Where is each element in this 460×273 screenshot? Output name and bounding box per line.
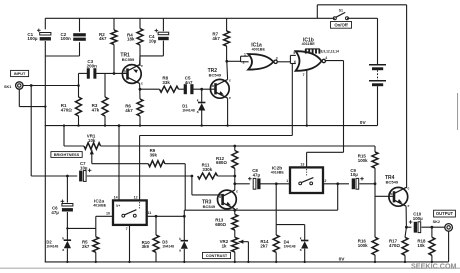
svg-text:BC549: BC549: [209, 73, 222, 78]
svg-text:10µ: 10µ: [350, 172, 358, 177]
svg-text:39k: 39k: [150, 153, 158, 158]
svg-text:c: c: [229, 79, 231, 83]
svg-text:a: a: [197, 110, 199, 114]
svg-text:1: 1: [286, 179, 288, 183]
svg-text:OUTPUT: OUTPUT: [436, 211, 454, 216]
svg-text:2k7: 2k7: [82, 244, 90, 249]
svg-text:SEEKIC.COM: SEEKIC.COM: [411, 262, 457, 271]
svg-text:4k7: 4k7: [99, 36, 107, 41]
svg-text:1N4148: 1N4148: [182, 108, 195, 112]
svg-text:e: e: [229, 96, 231, 100]
svg-text:680Ω: 680Ω: [215, 222, 226, 227]
svg-text:e: e: [141, 64, 143, 68]
svg-text:1N4148: 1N4148: [284, 244, 296, 248]
svg-text:4016BE: 4016BE: [93, 204, 107, 208]
svg-text:k: k: [179, 237, 181, 241]
svg-text:a: a: [300, 248, 302, 252]
svg-text:2k7: 2k7: [260, 243, 268, 248]
svg-text:SK1: SK1: [4, 85, 11, 89]
svg-text:18k: 18k: [127, 37, 135, 42]
svg-text:10: 10: [106, 212, 110, 216]
svg-text:0V: 0V: [339, 257, 346, 263]
svg-text:2: 2: [243, 61, 245, 65]
svg-text:S1: S1: [339, 9, 343, 13]
svg-text:47k: 47k: [92, 107, 100, 112]
svg-text:e: e: [408, 204, 410, 208]
svg-text:4016BE: 4016BE: [271, 171, 285, 175]
svg-text:4011BE: 4011BE: [302, 42, 316, 46]
svg-text:c: c: [141, 81, 143, 85]
svg-text:c: c: [408, 187, 410, 191]
svg-text:6: 6: [294, 60, 296, 64]
svg-text:13: 13: [300, 162, 304, 166]
svg-text:8,9,12,13,14: 8,9,12,13,14: [321, 50, 339, 54]
svg-text:SK2: SK2: [433, 220, 440, 224]
svg-text:10µ: 10µ: [80, 166, 88, 171]
svg-text:b: b: [124, 69, 126, 73]
svg-text:100µ: 100µ: [27, 36, 38, 41]
svg-text:100n: 100n: [61, 36, 72, 41]
svg-text:2: 2: [325, 179, 327, 183]
svg-text:b: b: [219, 195, 221, 199]
svg-text:330k: 330k: [202, 167, 212, 172]
svg-text:0V: 0V: [360, 120, 367, 126]
svg-text:BRIGHTNESS: BRIGHTNESS: [54, 152, 80, 157]
svg-text:4001BE: 4001BE: [252, 47, 266, 51]
svg-text:7: 7: [303, 73, 305, 77]
svg-text:e: e: [236, 207, 238, 211]
svg-text:3: 3: [276, 57, 278, 61]
svg-text:1N4148: 1N4148: [46, 245, 58, 249]
svg-text:a: a: [179, 248, 181, 252]
svg-text:4k7: 4k7: [212, 36, 220, 41]
svg-text:INPUT: INPUT: [14, 71, 26, 76]
svg-text:1: 1: [244, 52, 246, 56]
svg-text:4n7: 4n7: [185, 80, 193, 85]
svg-text:47µ: 47µ: [51, 210, 59, 215]
svg-text:4: 4: [325, 56, 327, 60]
svg-text:12: 12: [134, 195, 138, 199]
svg-text:k: k: [197, 99, 199, 103]
svg-text:1k: 1k: [222, 243, 227, 248]
svg-text:680Ω: 680Ω: [216, 160, 227, 165]
svg-text:4k7: 4k7: [125, 108, 133, 113]
svg-text:470Ω: 470Ω: [389, 243, 400, 248]
svg-text:BC549: BC549: [203, 204, 216, 209]
svg-text:100µ: 100µ: [413, 216, 423, 221]
svg-text:BC559: BC559: [122, 57, 135, 62]
svg-text:1N4148: 1N4148: [162, 245, 174, 249]
svg-text:b: b: [390, 192, 392, 196]
svg-text:100k: 100k: [358, 158, 368, 163]
svg-text:c: c: [236, 189, 238, 193]
svg-text:14: 14: [114, 195, 118, 199]
svg-text:a: a: [62, 248, 64, 252]
svg-text:k: k: [300, 237, 302, 241]
svg-text:10µ: 10µ: [149, 38, 157, 43]
svg-text:b: b: [212, 84, 214, 88]
svg-text:33k: 33k: [162, 80, 170, 85]
svg-text:47µ: 47µ: [253, 172, 261, 177]
svg-text:V+: V+: [116, 204, 120, 208]
svg-text:3k9: 3k9: [142, 244, 150, 249]
svg-text:CONTRAST: CONTRAST: [206, 253, 228, 258]
svg-text:470Ω: 470Ω: [61, 107, 73, 112]
svg-text:7: 7: [126, 227, 128, 231]
svg-text:100k: 100k: [358, 243, 368, 248]
svg-text:10k: 10k: [88, 138, 96, 143]
svg-text:BC549: BC549: [386, 180, 399, 185]
svg-text:200n: 200n: [87, 64, 98, 69]
svg-text:11: 11: [148, 211, 152, 215]
svg-text:k: k: [62, 236, 64, 240]
svg-text:10k: 10k: [417, 243, 425, 248]
svg-text:On/Off: On/Off: [334, 22, 348, 27]
